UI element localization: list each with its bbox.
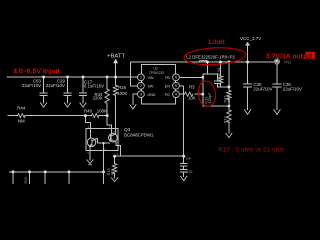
svg-text:Q3: Q3 [124, 127, 130, 132]
svg-text:3.7V/3A outp: 3.7V/3A outp [266, 53, 307, 60]
svg-text:6: 6 [175, 76, 177, 80]
svg-text:EN: EN [165, 85, 170, 89]
svg-text:1.0uH: 1.0uH [208, 39, 225, 46]
svg-text:GND: GND [148, 93, 156, 97]
svg-text:1uF: 1uF [186, 157, 192, 161]
svg-text:40K: 40K [110, 168, 115, 175]
svg-text:1: 1 [140, 76, 142, 80]
svg-text:10K: 10K [226, 95, 231, 102]
svg-text:NM: NM [18, 119, 25, 124]
svg-text:R10 : 0 ohm or 51 ohm: R10 : 0 ohm or 51 ohm [218, 147, 284, 154]
svg-text:100K: 100K [117, 91, 127, 96]
svg-text:R25: R25 [118, 85, 126, 90]
svg-text:TPS61232: TPS61232 [149, 71, 164, 75]
svg-text:3: 3 [140, 93, 142, 97]
svg-text:5: 5 [175, 84, 177, 88]
svg-text:R44: R44 [17, 106, 26, 111]
svg-text:PG: PG [165, 93, 170, 97]
svg-text:R26: R26 [24, 177, 28, 184]
svg-text:0.1uF/16V: 0.1uF/16V [84, 83, 104, 88]
svg-text:L2 DFE322520F-1R0=P2: L2 DFE322520F-1R0=P2 [186, 55, 235, 60]
svg-text:TP11: TP11 [284, 60, 292, 64]
svg-text:R40: R40 [84, 109, 93, 114]
svg-text:220K: 220K [93, 96, 103, 101]
svg-text:R3: R3 [189, 85, 195, 90]
svg-text:ut: ut [306, 53, 313, 60]
svg-text:U3: U3 [153, 66, 157, 70]
svg-text:SW: SW [148, 85, 154, 89]
svg-text:BC848CPDW1: BC848CPDW1 [124, 133, 154, 138]
svg-text:2: 2 [140, 84, 142, 88]
svg-text:C15: C15 [186, 170, 193, 174]
svg-text:FB: FB [165, 76, 170, 80]
svg-text:R38 51: R38 51 [216, 67, 221, 80]
svg-text:VIN: VIN [148, 76, 154, 80]
svg-text:100K: 100K [97, 109, 107, 114]
svg-text:22uF/10V: 22uF/10V [283, 87, 302, 92]
svg-text:10K: 10K [188, 96, 196, 101]
svg-text:22uF/10V: 22uF/10V [22, 83, 41, 88]
svg-text:150pF: 150pF [207, 92, 212, 104]
svg-text:+BATT: +BATT [107, 53, 125, 59]
svg-text:VCC_3.7V: VCC_3.7V [240, 36, 261, 41]
svg-text:4: 4 [175, 93, 177, 97]
svg-text:22uF/10V: 22uF/10V [46, 83, 65, 88]
svg-text:22uF/10V: 22uF/10V [253, 87, 272, 92]
svg-text:4.0~6.5V Input: 4.0~6.5V Input [13, 68, 60, 75]
